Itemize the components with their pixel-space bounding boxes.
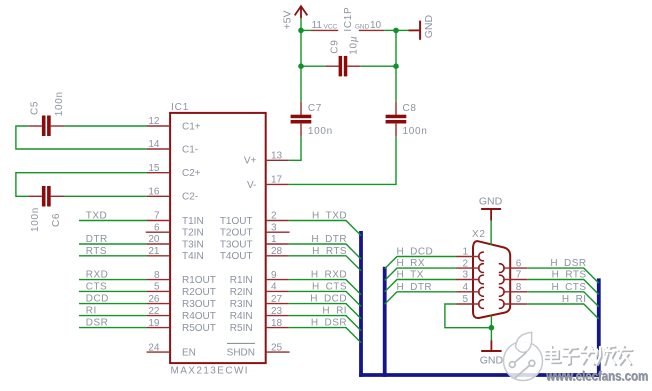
svg-text:R5OUT: R5OUT bbox=[182, 323, 216, 334]
svg-text:VCC: VCC bbox=[324, 23, 338, 30]
net H_RXD from pin 9 bbox=[289, 270, 361, 295]
ground top right (rotated) bbox=[396, 15, 435, 40]
svg-text:6: 6 bbox=[516, 258, 522, 269]
supply +5V symbol bbox=[281, 6, 307, 30]
X2 left pin numbers bbox=[462, 247, 468, 306]
svg-text:20: 20 bbox=[148, 234, 160, 245]
X2 left contacts (pins 1-5) bbox=[479, 252, 484, 308]
wire X2 bottom shield to junction bbox=[490, 315, 492, 327]
wire C6 right to pin 16 bbox=[64, 195, 147, 197]
svg-text:+5V: +5V bbox=[281, 11, 293, 30]
IC IC1 MAX213ECWI body bbox=[170, 102, 266, 377]
svg-text:R4OUT: R4OUT bbox=[182, 311, 216, 322]
net H_RTS from pin 28 bbox=[289, 246, 361, 271]
svg-text:2: 2 bbox=[271, 211, 277, 222]
node DTR bbox=[79, 234, 147, 245]
capacitor C6 bbox=[28, 186, 64, 232]
node junction C9 right bbox=[393, 63, 399, 69]
svg-text:12: 12 bbox=[148, 116, 160, 127]
svg-text:100n: 100n bbox=[308, 126, 333, 137]
ground above X2 bbox=[479, 196, 503, 246]
svg-text:T3OUT: T3OUT bbox=[220, 239, 253, 250]
svg-text:8: 8 bbox=[154, 270, 160, 281]
wire pin 15 loop to C6 left bbox=[16, 173, 147, 197]
svg-text:26: 26 bbox=[148, 294, 160, 305]
svg-text:GND: GND bbox=[479, 196, 503, 208]
svg-text:8: 8 bbox=[516, 282, 522, 293]
svg-text:18: 18 bbox=[271, 318, 283, 329]
node DSR bbox=[79, 318, 147, 329]
net H_DTR to X2 pin 4 bbox=[385, 282, 456, 304]
node CTS bbox=[79, 281, 147, 292]
net H_TX to X2 pin 3 bbox=[385, 270, 456, 292]
watermark logo circle bbox=[504, 332, 543, 380]
IC1 left pin numbers bbox=[148, 116, 160, 353]
svg-text:17: 17 bbox=[271, 175, 283, 186]
svg-text:100n: 100n bbox=[30, 207, 41, 232]
bus vertical 1 bbox=[359, 231, 363, 377]
watermark chinese text bbox=[545, 346, 633, 366]
X2 right contacts (pins 6-9) bbox=[499, 264, 504, 309]
svg-text:GND: GND bbox=[480, 355, 504, 367]
svg-text:MAX213ECWI: MAX213ECWI bbox=[171, 366, 249, 377]
svg-text:22: 22 bbox=[148, 306, 160, 317]
net H_DTR from pin 1 bbox=[289, 234, 361, 259]
svg-text:T2IN: T2IN bbox=[182, 228, 204, 239]
svg-text:C5: C5 bbox=[30, 101, 41, 115]
node RI bbox=[79, 306, 147, 317]
svg-text:1: 1 bbox=[462, 247, 468, 258]
svg-text:27: 27 bbox=[271, 294, 283, 305]
X2 right pin stubs bbox=[503, 268, 527, 304]
svg-text:7: 7 bbox=[516, 270, 522, 281]
svg-text:3: 3 bbox=[271, 222, 277, 233]
svg-text:www.elecfans.com: www.elecfans.com bbox=[545, 369, 648, 384]
net H_RX to X2 pin 2 bbox=[385, 258, 456, 280]
svg-text:IC1: IC1 bbox=[171, 102, 189, 113]
wire C7 bottom to pin 13 bbox=[289, 137, 301, 161]
svg-text:T3IN: T3IN bbox=[182, 239, 204, 250]
svg-text:T1OUT: T1OUT bbox=[220, 216, 253, 227]
wire C5 left loop to pin 14 bbox=[16, 126, 147, 149]
net H_DCD from pin 27 bbox=[289, 294, 361, 319]
svg-text:14: 14 bbox=[148, 139, 160, 150]
node DCD bbox=[79, 294, 147, 305]
net H_RI from X2 pin 9 bbox=[527, 294, 599, 319]
wire C9 row left bbox=[301, 65, 325, 67]
svg-text:25: 25 bbox=[271, 342, 283, 353]
net H_DSR from X2 pin 6 bbox=[527, 258, 599, 283]
svg-text:C1+: C1+ bbox=[182, 121, 201, 132]
wire C9 row right bbox=[361, 65, 396, 67]
power symbol IC1P pin GND 10 bbox=[355, 20, 384, 31]
node junction +5V rail left bbox=[298, 28, 304, 34]
node shield junction bbox=[489, 325, 495, 331]
svg-text:EN: EN bbox=[182, 348, 196, 359]
wire C5 right to pin 12 bbox=[64, 125, 147, 127]
svg-text:2: 2 bbox=[462, 258, 468, 269]
svg-text:T1IN: T1IN bbox=[182, 216, 204, 227]
svg-text:IC1P: IC1P bbox=[343, 7, 354, 32]
wire C8 bottom to pin 17 bbox=[289, 137, 396, 185]
svg-text:6: 6 bbox=[154, 222, 160, 233]
svg-text:R1IN: R1IN bbox=[230, 275, 253, 286]
wire right column down bbox=[395, 30, 397, 101]
wire rail to right junction bbox=[384, 29, 396, 31]
IC1 pin names left column bbox=[182, 121, 216, 358]
watermark url text bbox=[545, 369, 649, 385]
IC1 right pin numbers bbox=[271, 151, 283, 354]
wire left column down bbox=[300, 30, 302, 101]
svg-text:21: 21 bbox=[148, 246, 160, 257]
svg-text:100n: 100n bbox=[54, 91, 65, 116]
node junction C9 left bbox=[298, 63, 304, 69]
svg-text:C1-: C1- bbox=[182, 144, 198, 155]
svg-text:R5IN: R5IN bbox=[230, 323, 253, 334]
bus vertical 3 bbox=[597, 278, 601, 377]
svg-text:X2: X2 bbox=[472, 229, 486, 240]
svg-text:4: 4 bbox=[462, 282, 468, 293]
net H_RI from pin 23 bbox=[289, 306, 361, 331]
wire +5V rail left bbox=[301, 29, 311, 31]
ground below X2 bbox=[480, 328, 504, 367]
svg-text:24: 24 bbox=[148, 342, 160, 353]
capacitor C5 bbox=[28, 91, 65, 136]
svg-text:R2IN: R2IN bbox=[230, 287, 253, 298]
net H_DCD to X2 pin 1 bbox=[385, 247, 456, 269]
node TXD bbox=[79, 211, 147, 222]
svg-text:C6: C6 bbox=[51, 213, 62, 227]
connector X2 outline bbox=[472, 229, 510, 318]
node RTS bbox=[79, 246, 147, 257]
svg-text:16: 16 bbox=[148, 187, 160, 198]
svg-text:4: 4 bbox=[271, 282, 277, 293]
svg-text:9: 9 bbox=[516, 294, 522, 305]
svg-text:SHDN: SHDN bbox=[227, 348, 255, 359]
capacitor C9 bbox=[325, 36, 361, 77]
svg-text:GND: GND bbox=[423, 15, 435, 39]
svg-text:10µ: 10µ bbox=[349, 36, 360, 55]
node junction rail right bbox=[393, 28, 399, 34]
svg-text:R1OUT: R1OUT bbox=[182, 275, 216, 286]
svg-text:C8: C8 bbox=[403, 103, 417, 114]
svg-text:11: 11 bbox=[312, 20, 323, 31]
svg-text:28: 28 bbox=[271, 246, 283, 257]
svg-text:100n: 100n bbox=[403, 126, 428, 137]
net H_DSR from pin 18 bbox=[289, 318, 361, 343]
svg-text:C2+: C2+ bbox=[182, 168, 201, 179]
svg-text:9: 9 bbox=[271, 270, 277, 281]
IC1 pin names right column bbox=[220, 156, 257, 359]
bus horizontal bottom bbox=[359, 373, 601, 377]
capacitor C7 bbox=[291, 102, 333, 137]
svg-text:23: 23 bbox=[271, 306, 283, 317]
svg-text:5: 5 bbox=[462, 294, 468, 305]
power symbol IC1P pin VCC 11 bbox=[311, 7, 354, 32]
svg-text:R3IN: R3IN bbox=[230, 299, 253, 310]
net H_TXD from pin 2 bbox=[289, 211, 361, 236]
svg-text:C9: C9 bbox=[330, 40, 341, 54]
svg-text:C2-: C2- bbox=[182, 192, 198, 203]
svg-text:15: 15 bbox=[148, 163, 160, 174]
svg-text:V+: V+ bbox=[244, 156, 257, 167]
svg-text:3: 3 bbox=[462, 270, 468, 281]
svg-text:GND: GND bbox=[355, 23, 370, 30]
net H_RTS from X2 pin 7 bbox=[527, 270, 599, 295]
IC1 right pin stubs bbox=[266, 160, 290, 352]
svg-text:10: 10 bbox=[370, 20, 382, 31]
svg-text:19: 19 bbox=[148, 318, 160, 329]
IC1 left pin stubs bbox=[146, 126, 170, 352]
svg-text:R2OUT: R2OUT bbox=[182, 287, 216, 298]
svg-text:13: 13 bbox=[271, 151, 283, 162]
capacitor C8 bbox=[386, 102, 428, 137]
bus vertical 2 bbox=[383, 267, 387, 377]
net H_CTS from X2 pin 8 bbox=[527, 282, 599, 307]
X2 right pin numbers bbox=[516, 258, 522, 305]
svg-text:V-: V- bbox=[247, 180, 256, 191]
svg-text:T4OUT: T4OUT bbox=[220, 251, 253, 262]
wire X2 pin 5 loop to shield junction bbox=[445, 304, 492, 328]
svg-text:5: 5 bbox=[154, 282, 160, 293]
net H_CTS from pin 4 bbox=[289, 281, 361, 306]
svg-text:T2OUT: T2OUT bbox=[220, 228, 253, 239]
svg-text:R3OUT: R3OUT bbox=[182, 299, 216, 310]
svg-text:T4IN: T4IN bbox=[182, 251, 204, 262]
svg-text:R4IN: R4IN bbox=[230, 311, 253, 322]
node RXD bbox=[79, 270, 147, 281]
X2 left pin stubs bbox=[456, 257, 480, 305]
SHDN overline bbox=[227, 342, 255, 344]
svg-text:1: 1 bbox=[271, 234, 277, 245]
svg-text:C7: C7 bbox=[308, 103, 322, 114]
svg-text:7: 7 bbox=[154, 211, 160, 222]
